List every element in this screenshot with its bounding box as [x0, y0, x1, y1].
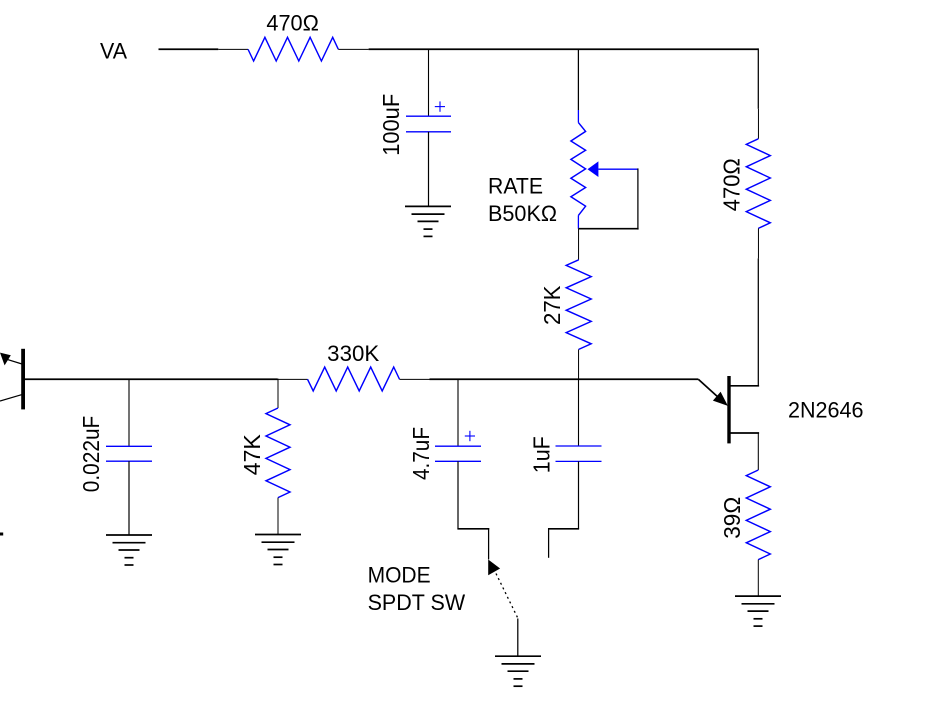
resistor 27K [566, 229, 591, 380]
wire 4.7uF to switch throw A [457, 461, 489, 559]
svg-text:100uF: 100uF [378, 94, 404, 156]
node VA [100, 39, 127, 64]
capacitor 0.022uF plates [106, 446, 152, 461]
label 0.022uF [78, 416, 104, 493]
label MODE [368, 562, 431, 587]
transistor Q1 partial left [0, 349, 25, 410]
svg-text:B50KΩ: B50KΩ [488, 201, 557, 226]
label 100uF [378, 94, 404, 156]
svg-text:RATE: RATE [488, 174, 543, 199]
svg-text:VA: VA [100, 39, 127, 64]
resistor 470Ω right [746, 109, 770, 259]
wire to 0.022uF [128, 379, 130, 447]
label 47K [239, 434, 265, 476]
capacitor 4.7uF plates [435, 446, 481, 461]
svg-text:330K: 330K [327, 341, 379, 366]
label SPDT SW [368, 590, 466, 615]
resistor 47K [266, 379, 290, 535]
ground under 100uF [405, 206, 451, 236]
ground under switch [495, 656, 541, 686]
label 470Ω right [719, 158, 745, 211]
svg-text:1uF: 1uF [528, 436, 554, 473]
label + polarity 4.7uF [465, 431, 475, 441]
wire pot wiper loop [578, 168, 638, 229]
label 2N2646 [788, 397, 864, 422]
svg-text:39Ω: 39Ω [719, 497, 745, 539]
resistor 330K [278, 367, 430, 391]
svg-text:47K: 47K [239, 434, 265, 476]
label 470Ω top [266, 11, 319, 36]
wire 100uF to ground [428, 132, 430, 207]
label + polarity 100uF [435, 101, 445, 111]
svg-text:4.7uF: 4.7uF [408, 427, 434, 480]
svg-text:470Ω: 470Ω [266, 11, 319, 36]
wire VA stub [159, 48, 219, 50]
svg-text:0.022uF: 0.022uF [78, 416, 104, 493]
capacitor 1uF plates [556, 446, 602, 461]
potentiometer RATE B50KΩ [571, 110, 638, 229]
wire to 4.7uF [457, 379, 459, 447]
wire stub bottom left [0, 533, 3, 536]
wire rail to pot [577, 49, 579, 111]
svg-text:2N2646: 2N2646 [788, 397, 864, 422]
ground under 0.022uF [106, 535, 152, 565]
resistor 39Ω [746, 433, 770, 596]
wire 470Ω right to UJT base2 [757, 258, 759, 385]
svg-text:SPDT SW: SPDT SW [368, 590, 466, 615]
wire node to 1uF [578, 379, 580, 446]
svg-text:27K: 27K [539, 285, 565, 325]
capacitor 100uF plates [406, 116, 451, 132]
wire 0.022uF to ground [128, 461, 130, 535]
resistor 470Ω top [218, 37, 368, 61]
label 39Ω [719, 497, 745, 539]
wire 330K to UJT emitter [430, 378, 699, 380]
ground under 39Ω [735, 596, 781, 626]
wire switch pole to ground [517, 619, 519, 657]
switch MODE SPDT arm [488, 560, 517, 618]
ground under 47K [255, 535, 301, 565]
wire top rail drop right [757, 48, 759, 108]
label 1uF [528, 436, 554, 473]
wire top rail [369, 48, 759, 50]
transistor U1 2N2646 [698, 376, 759, 443]
label 4.7uF [408, 427, 434, 480]
svg-text:470Ω: 470Ω [719, 158, 745, 211]
label RATE [488, 174, 543, 199]
label 330K [327, 341, 379, 366]
wire rail to 100uF [428, 49, 430, 117]
svg-text:MODE: MODE [368, 562, 431, 587]
label 27K [539, 285, 565, 325]
wire 1uF to switch throw B [548, 461, 579, 557]
label B50KΩ [488, 201, 557, 226]
wire base rail (middle) [25, 378, 278, 380]
